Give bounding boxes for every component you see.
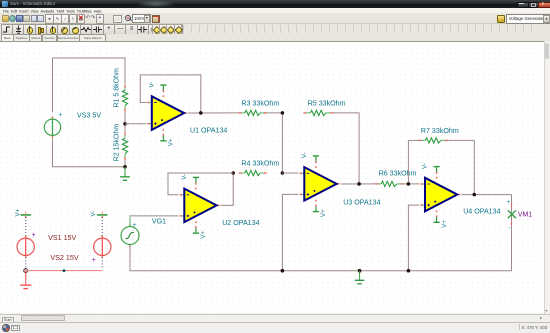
wire VS1-VS2 bottom: [26, 270, 103, 272]
op-amp U2: [181, 194, 184, 196]
svg-text:VS2 15V: VS2 15V: [50, 254, 78, 262]
svg-text:-: -: [508, 225, 510, 232]
title bar: [0, 0, 550, 8]
wire VS2 top dotted: [101, 212, 103, 215]
ground below R2: [124, 167, 126, 177]
svg-text:VM1: VM1: [518, 212, 532, 219]
wire R7 horizontal ends: [408, 139, 419, 141]
node U4 minus junction: [407, 182, 411, 186]
svg-text:V+: V+: [441, 220, 448, 228]
node R4 left junction: [231, 171, 235, 175]
svg-text:VS3 5V: VS3 5V: [77, 112, 101, 120]
horizontal scrollbar + sheet tab: [0, 314, 550, 323]
resistor R5 33kOhm: [303, 112, 306, 114]
menu bar: [0, 8, 550, 14]
svg-text:+: +: [32, 232, 36, 239]
node U1 output junction: [199, 111, 203, 115]
svg-text:V-: V-: [181, 174, 188, 180]
wire R2 bottom: [124, 160, 126, 167]
svg-text:U2 OPA134: U2 OPA134: [222, 219, 259, 227]
voltage source VS1: [17, 238, 34, 255]
jumper V+ above VS1: [21, 214, 31, 216]
toolbar row 1: [0, 13, 550, 24]
svg-text:VG1: VG1: [152, 217, 166, 225]
wire U1 output: [188, 112, 239, 114]
svg-text:R2 15kOhm: R2 15kOhm: [114, 124, 121, 162]
svg-text:U1 OPA134: U1 OPA134: [190, 126, 227, 134]
svg-text:U3 OPA134: U3 OPA134: [343, 199, 380, 207]
svg-text:+: +: [132, 222, 136, 229]
svg-text:R3 33kOhm: R3 33kOhm: [241, 99, 279, 107]
node U4 plus rail junction: [407, 269, 411, 273]
svg-text:R5 33kOhm: R5 33kOhm: [308, 99, 346, 107]
svg-text:V-: V-: [148, 82, 155, 88]
toolbar row 2: [0, 24, 550, 34]
node R3-R5 junction: [281, 111, 285, 115]
svg-text:U4 OPA134: U4 OPA134: [463, 208, 500, 216]
node R4 right junction: [281, 171, 285, 175]
tabs row: [0, 34, 550, 42]
node U3 plus rail junction: [281, 269, 285, 273]
node rail ground junction: [358, 269, 362, 273]
wire VG1 to U2 plus: [129, 217, 131, 227]
resistor R4 33kOhm: [239, 172, 242, 174]
ground below VS1: [25, 273, 27, 282]
node R2-ground junction: [123, 165, 127, 169]
wire R7 feedback loop left: [407, 140, 409, 182]
wire U2 feedback loop: [168, 173, 233, 195]
status bar: [0, 322, 550, 333]
node VS1 bottom junction: [24, 269, 28, 273]
wire VS1 top dotted: [25, 212, 27, 215]
voltmeter pin VM1: [508, 210, 516, 218]
resistor R7 33kOhm: [419, 139, 422, 141]
node U3 output junction: [357, 182, 361, 186]
op-amp U4: [422, 183, 425, 185]
svg-text:R7 33kOhm: R7 33kOhm: [421, 127, 459, 135]
wire R5 right to U3 output column: [333, 113, 359, 182]
wire U4 plus input down to rail: [408, 205, 419, 271]
svg-text:R1 5.8kOhm: R1 5.8kOhm: [114, 68, 121, 107]
wire VS1 bottom dotted: [25, 258, 27, 269]
op-amp U3: [301, 172, 304, 174]
jumper V- above VS2: [97, 214, 107, 216]
window buttons: [517, 2, 529, 9]
wire R4 to U3 minus: [282, 172, 298, 174]
svg-text:V+: V+: [200, 230, 207, 238]
voltage source VS3: [44, 119, 60, 135]
svg-text:V-: V-: [301, 152, 308, 158]
resistor R2 15kOhm: [124, 126, 126, 133]
wire VS3 top to R1: [53, 58, 126, 112]
wire VS3 bottom: [53, 138, 124, 166]
svg-text:V+: V+: [320, 209, 327, 217]
wire VS2 bottom dotted: [101, 258, 103, 270]
wire U3 output: [341, 183, 375, 185]
svg-text:+: +: [507, 199, 511, 206]
resistor R1 5.6kOhm: [124, 85, 126, 88]
svg-text:V+: V+: [168, 138, 175, 146]
svg-text:R4 33kOhm: R4 33kOhm: [241, 159, 279, 167]
wire U4 output to VM1: [462, 194, 512, 196]
op-amp U1: [149, 102, 152, 104]
wire U2 output up to feedback node: [221, 175, 233, 206]
wire U1 feedback loop: [140, 75, 201, 113]
wire U3 plus input down to rail: [282, 194, 298, 270]
svg-text:VS1 15V: VS1 15V: [48, 234, 76, 242]
wire R7 right down to U4 output: [473, 140, 475, 193]
wire VM1 vertical: [511, 195, 513, 271]
svg-text:V+: V+: [15, 208, 21, 216]
wire R3 to node: [266, 112, 282, 114]
svg-text:R6 33kOhm: R6 33kOhm: [379, 170, 417, 178]
wire R3R5 node down to R4 node: [281, 115, 283, 172]
wire junction to U1 plus input: [125, 123, 146, 125]
svg-text:V-: V-: [91, 211, 97, 217]
resistor R6 33kOhm: [375, 183, 378, 185]
svg-text:V-: V-: [422, 163, 429, 169]
node R1-R2 junction: [123, 122, 127, 126]
voltage source VS2: [94, 238, 111, 255]
wire R6 to U4 minus node: [403, 183, 419, 185]
svg-text:+: +: [58, 112, 62, 119]
svg-text:+: +: [92, 257, 96, 264]
wire VG1 bottom to ground rail: [130, 245, 512, 271]
right vertical scrollbar: [544, 41, 550, 314]
wire R1 to junction: [124, 111, 126, 122]
node U4 output junction: [473, 193, 477, 197]
generator VG1: [121, 227, 139, 245]
ground on rail: [359, 272, 361, 274]
resistor R3 33kOhm: [239, 112, 242, 114]
